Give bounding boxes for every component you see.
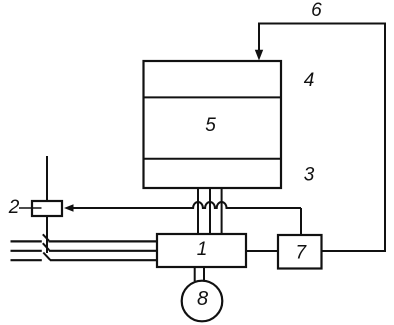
svg-text:2: 2 (8, 197, 20, 218)
svg-text:3: 3 (304, 165, 315, 186)
svg-text:5: 5 (205, 115, 216, 136)
svg-text:6: 6 (311, 0, 322, 21)
svg-text:8: 8 (197, 288, 208, 310)
svg-text:1: 1 (197, 239, 208, 260)
svg-text:7: 7 (296, 242, 308, 263)
svg-text:4: 4 (304, 70, 315, 91)
